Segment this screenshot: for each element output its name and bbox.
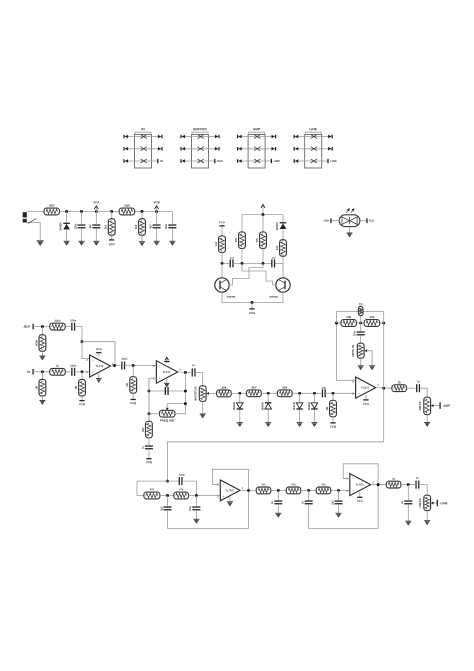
svg-text:2k2: 2k2 xyxy=(104,224,108,229)
svg-text:4R7: 4R7 xyxy=(49,204,55,208)
svg-text:LED: LED xyxy=(324,219,329,223)
svg-text:10k: 10k xyxy=(275,245,279,250)
svg-text:220u: 220u xyxy=(74,223,77,229)
svg-text:1k: 1k xyxy=(56,364,59,368)
svg-text:100n: 100n xyxy=(354,330,356,336)
svg-text:TL072: TL072 xyxy=(361,386,370,390)
svg-text:47k: 47k xyxy=(291,482,296,486)
svg-text:DEPTH 10k: DEPTH 10k xyxy=(353,344,355,357)
svg-text:1k: 1k xyxy=(392,477,395,481)
svg-text:LED: LED xyxy=(109,242,115,246)
svg-text:100n: 100n xyxy=(70,318,76,322)
svg-text:330p: 330p xyxy=(190,505,192,511)
svg-text:220n: 220n xyxy=(121,357,127,361)
svg-text:1n: 1n xyxy=(271,501,274,504)
svg-text:3k3: 3k3 xyxy=(134,224,138,229)
svg-text:TL072: TL072 xyxy=(356,483,365,487)
svg-text:FLD: FLD xyxy=(369,219,374,223)
svg-text:10n: 10n xyxy=(321,386,326,390)
svg-text:AMP: AMP xyxy=(253,127,261,131)
svg-text:39k: 39k xyxy=(221,386,226,390)
svg-text:1N4148: 1N4148 xyxy=(262,402,265,411)
svg-text:.AMP: .AMP xyxy=(442,404,450,408)
svg-text:500k: 500k xyxy=(34,340,38,346)
svg-text:1N4148: 1N4148 xyxy=(308,402,311,411)
svg-text:TL072: TL072 xyxy=(226,488,235,492)
svg-text:47k: 47k xyxy=(321,482,326,486)
svg-text:4u7: 4u7 xyxy=(230,257,235,260)
svg-text:VCA: VCA xyxy=(357,499,363,503)
svg-text:1N4148: 1N4148 xyxy=(293,402,296,411)
svg-text:47k: 47k xyxy=(179,487,184,491)
svg-text:.IN: .IN xyxy=(26,370,30,374)
svg-text:2u2: 2u2 xyxy=(331,500,334,505)
svg-text:1u0: 1u0 xyxy=(214,241,218,246)
svg-text:4u7: 4u7 xyxy=(149,224,152,229)
svg-text:4u7: 4u7 xyxy=(89,224,92,229)
svg-text:100n: 100n xyxy=(165,223,168,229)
svg-text:FLD: FLD xyxy=(219,220,224,224)
svg-text:.BUF: .BUF xyxy=(23,325,30,329)
svg-text:1u: 1u xyxy=(142,446,145,449)
svg-text:2N5456: 2N5456 xyxy=(227,296,236,299)
svg-text:1u: 1u xyxy=(417,379,420,383)
svg-text:TL072: TL072 xyxy=(95,364,104,368)
svg-text:1n: 1n xyxy=(165,383,168,387)
svg-text:47p: 47p xyxy=(359,303,364,306)
svg-text:.LINE: .LINE xyxy=(440,501,448,505)
svg-text:+: + xyxy=(92,370,94,374)
svg-text:1k: 1k xyxy=(397,380,401,384)
svg-text:10k: 10k xyxy=(346,315,351,319)
svg-text:47k: 47k xyxy=(150,487,155,491)
svg-text:VCB: VCB xyxy=(79,402,85,406)
svg-text:+: + xyxy=(358,392,360,396)
svg-text:1u: 1u xyxy=(401,501,404,504)
svg-text:22k0: 22k0 xyxy=(55,319,61,323)
svg-text:.LINE: .LINE xyxy=(330,159,337,163)
svg-text:330p: 330p xyxy=(179,473,185,477)
svg-text:.AMP: .AMP xyxy=(273,159,280,163)
svg-text:2k2: 2k2 xyxy=(141,427,145,432)
svg-text:+: + xyxy=(159,376,161,380)
svg-text:1u: 1u xyxy=(416,476,419,480)
svg-text:1N4003: 1N4003 xyxy=(59,222,62,231)
svg-text:MASTER 50K: MASTER 50K xyxy=(195,386,198,401)
svg-text:LINE 10k: LINE 10k xyxy=(420,497,422,507)
svg-text:VCB: VCB xyxy=(130,401,136,405)
svg-text:10R: 10R xyxy=(124,204,130,208)
svg-text:1u: 1u xyxy=(192,363,195,367)
svg-text:100n: 100n xyxy=(70,364,76,368)
svg-text:2N5456: 2N5456 xyxy=(269,296,278,299)
svg-text:+: + xyxy=(223,494,225,498)
svg-text:VCB: VCB xyxy=(146,460,152,464)
svg-text:VCA: VCA xyxy=(93,200,100,204)
svg-text:VCB: VCB xyxy=(330,425,336,429)
svg-text:VCB: VCB xyxy=(153,200,160,204)
svg-text:47k: 47k xyxy=(255,237,259,242)
svg-text:.BUF: .BUF xyxy=(216,159,223,163)
svg-text:1N4148: 1N4148 xyxy=(233,402,236,411)
svg-text:LINE: LINE xyxy=(309,127,317,131)
svg-text:4k7: 4k7 xyxy=(251,385,256,389)
svg-text:.IN: .IN xyxy=(159,159,163,163)
svg-text:47k: 47k xyxy=(234,237,238,242)
svg-text:10k: 10k xyxy=(369,315,374,319)
svg-text:VCA: VCA xyxy=(249,311,256,315)
svg-text:BUFFER: BUFFER xyxy=(193,127,207,131)
svg-text:4u7: 4u7 xyxy=(271,257,276,260)
svg-text:22k: 22k xyxy=(282,385,287,389)
svg-text:TL072: TL072 xyxy=(162,370,171,374)
svg-text:FREQ 50K: FREQ 50K xyxy=(160,418,176,422)
svg-text:47k: 47k xyxy=(261,482,266,486)
svg-text:VCA: VCA xyxy=(96,347,103,351)
svg-text:AMP 10k: AMP 10k xyxy=(419,401,422,411)
svg-text:VCA: VCA xyxy=(363,402,370,406)
svg-text:1N4003: 1N4003 xyxy=(276,222,279,231)
svg-text:+: + xyxy=(352,489,354,493)
svg-text:IN: IN xyxy=(141,127,145,131)
svg-text:2u2: 2u2 xyxy=(160,506,163,511)
svg-text:1n: 1n xyxy=(302,501,305,504)
